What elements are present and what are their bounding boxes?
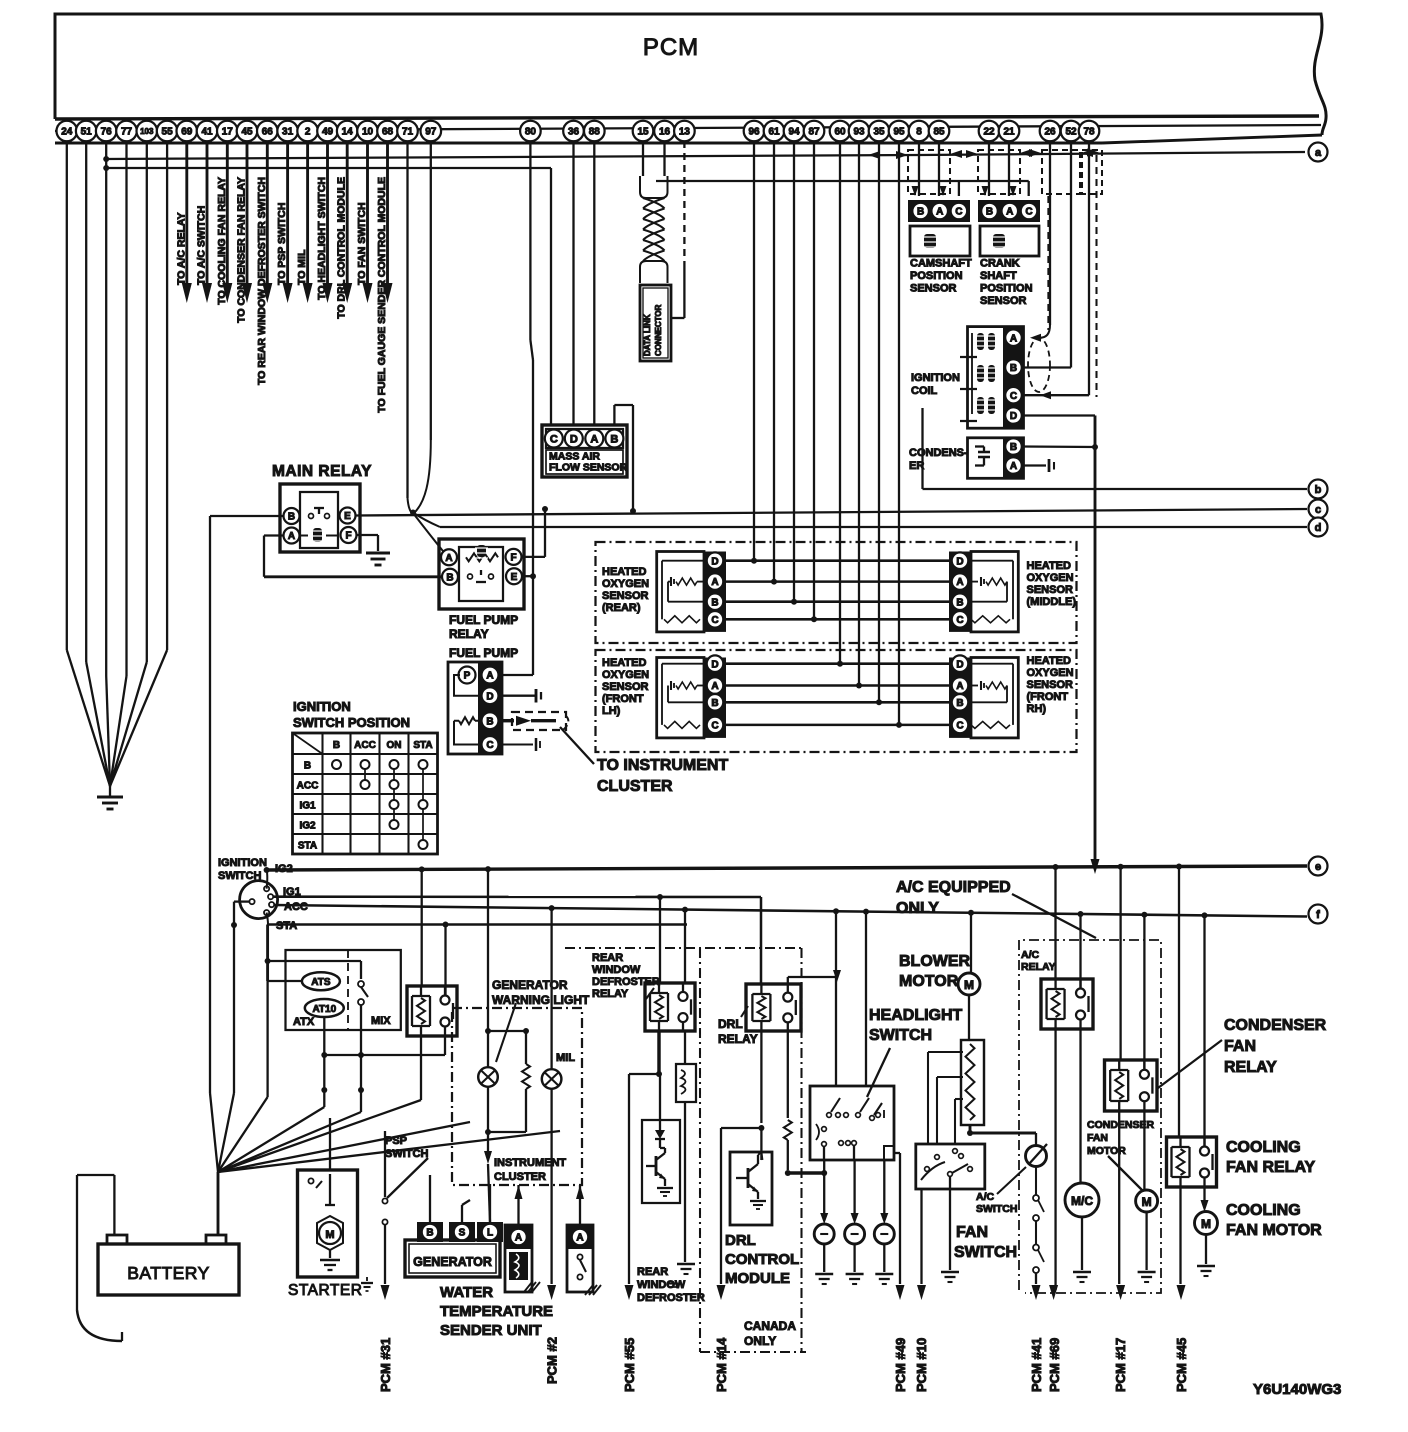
svg-text:PCM #55: PCM #55 — [622, 1338, 637, 1392]
svg-text:A/C: A/C — [1021, 949, 1040, 961]
svg-text:SHAFT: SHAFT — [980, 270, 1017, 282]
svg-text:RELAY: RELAY — [592, 988, 629, 1000]
svg-text:IG1: IG1 — [299, 801, 316, 812]
svg-text:41: 41 — [201, 127, 213, 138]
svg-text:TO A/C RELAY: TO A/C RELAY — [175, 212, 187, 285]
svg-text:WARNING LIGHT: WARNING LIGHT — [492, 993, 590, 1007]
svg-text:TO CONDENSER FAN RELAY: TO CONDENSER FAN RELAY — [236, 177, 248, 323]
svg-text:FUEL PUMP: FUEL PUMP — [449, 646, 518, 660]
svg-text:SWITCH: SWITCH — [869, 1027, 932, 1044]
svg-text:E: E — [511, 572, 518, 583]
svg-text:DRL: DRL — [718, 1017, 743, 1031]
svg-text:2: 2 — [305, 127, 311, 138]
svg-text:A: A — [590, 433, 598, 445]
svg-text:RELAY: RELAY — [449, 627, 489, 641]
svg-text:TO REAR WINDOW DEFROSTER SWITC: TO REAR WINDOW DEFROSTER SWITCH — [256, 177, 268, 385]
svg-text:A: A — [576, 1233, 583, 1244]
svg-text:A: A — [956, 577, 963, 588]
svg-text:d: d — [1315, 522, 1322, 534]
svg-text:52: 52 — [1065, 127, 1077, 138]
svg-text:IGNITION: IGNITION — [218, 857, 267, 869]
svg-text:OXYGEN: OXYGEN — [1027, 572, 1074, 584]
svg-text:TEMPERATURE: TEMPERATURE — [440, 1303, 553, 1320]
svg-text:(FRONT: (FRONT — [602, 693, 644, 705]
svg-text:a: a — [1315, 147, 1322, 159]
svg-text:MAIN RELAY: MAIN RELAY — [272, 463, 372, 480]
svg-text:D: D — [711, 659, 718, 670]
svg-text:C: C — [711, 615, 718, 626]
svg-text:ACC: ACC — [297, 781, 319, 792]
svg-text:WINDOW: WINDOW — [637, 1279, 686, 1291]
svg-text:HEATED: HEATED — [602, 657, 646, 669]
svg-text:26: 26 — [1044, 127, 1056, 138]
svg-text:A: A — [1010, 461, 1017, 472]
svg-text:PSP: PSP — [385, 1135, 407, 1147]
svg-text:OXYGEN: OXYGEN — [1027, 667, 1074, 679]
svg-text:B: B — [610, 433, 618, 445]
svg-text:C: C — [711, 721, 718, 732]
svg-text:97: 97 — [425, 127, 437, 138]
svg-text:MIX: MIX — [371, 1015, 391, 1027]
svg-text:88: 88 — [589, 127, 601, 138]
svg-text:SWITCH: SWITCH — [976, 1203, 1017, 1215]
svg-text:D: D — [956, 556, 963, 567]
svg-text:REAR: REAR — [637, 1266, 668, 1278]
svg-text:PCM #2: PCM #2 — [545, 1337, 560, 1384]
svg-text:FAN MOTOR: FAN MOTOR — [1226, 1222, 1322, 1239]
svg-text:C: C — [956, 721, 963, 732]
svg-text:69: 69 — [181, 127, 193, 138]
svg-text:76: 76 — [101, 127, 113, 138]
svg-text:POSITION: POSITION — [980, 283, 1033, 295]
svg-text:LH): LH) — [602, 705, 621, 717]
svg-text:93: 93 — [853, 127, 865, 138]
svg-text:OXYGEN: OXYGEN — [602, 669, 649, 681]
svg-text:B: B — [917, 207, 924, 218]
svg-text:TO DRL CONTROL MODULE: TO DRL CONTROL MODULE — [336, 177, 348, 319]
svg-text:A: A — [711, 577, 718, 588]
svg-text:D: D — [956, 659, 963, 670]
svg-text:15: 15 — [637, 127, 649, 138]
svg-text:36: 36 — [568, 127, 580, 138]
svg-text:21: 21 — [1003, 127, 1015, 138]
svg-text:Y6U140WG3: Y6U140WG3 — [1253, 1381, 1341, 1398]
svg-text:PCM #14: PCM #14 — [714, 1337, 729, 1392]
svg-text:PCM #45: PCM #45 — [1174, 1338, 1189, 1392]
svg-text:C: C — [1025, 207, 1032, 218]
svg-text:45: 45 — [241, 127, 253, 138]
svg-text:DEFROSTER: DEFROSTER — [637, 1292, 705, 1304]
svg-text:87: 87 — [808, 127, 820, 138]
svg-text:HEATED: HEATED — [602, 566, 646, 578]
svg-text:TO A/C SWITCH: TO A/C SWITCH — [196, 206, 208, 285]
svg-text:10: 10 — [362, 127, 374, 138]
svg-text:WINDOW: WINDOW — [592, 964, 641, 976]
svg-text:POSITION: POSITION — [910, 270, 963, 282]
svg-text:PCM #17: PCM #17 — [1113, 1338, 1128, 1392]
svg-text:CONDENSER: CONDENSER — [1087, 1119, 1155, 1131]
svg-text:P: P — [464, 671, 471, 682]
svg-text:TO MIL: TO MIL — [296, 249, 308, 285]
svg-text:96: 96 — [748, 127, 760, 138]
svg-text:FUEL PUMP: FUEL PUMP — [449, 613, 518, 627]
svg-text:CONNECTOR: CONNECTOR — [654, 304, 663, 356]
svg-text:35: 35 — [873, 127, 885, 138]
svg-text:MOTOR: MOTOR — [1087, 1145, 1126, 1157]
svg-text:PCM #41: PCM #41 — [1029, 1338, 1044, 1392]
svg-text:C: C — [955, 207, 962, 218]
svg-text:BATTERY: BATTERY — [127, 1263, 210, 1283]
svg-text:MODULE: MODULE — [725, 1270, 790, 1287]
svg-text:c: c — [1315, 504, 1321, 516]
svg-text:IGNITION: IGNITION — [911, 372, 960, 384]
svg-text:95: 95 — [893, 127, 905, 138]
svg-text:B: B — [288, 512, 295, 523]
svg-text:24: 24 — [61, 127, 73, 138]
svg-text:HEATED: HEATED — [1027, 655, 1071, 667]
svg-text:RELAY: RELAY — [1224, 1059, 1277, 1076]
svg-text:DRL: DRL — [725, 1232, 756, 1249]
svg-text:B: B — [304, 761, 311, 772]
svg-text:B: B — [711, 698, 718, 709]
svg-text:COIL: COIL — [911, 385, 938, 397]
svg-text:77: 77 — [121, 127, 133, 138]
svg-text:B: B — [486, 716, 493, 727]
svg-text:F: F — [345, 531, 351, 542]
svg-text:D: D — [1010, 411, 1017, 422]
svg-text:ACC: ACC — [284, 901, 308, 913]
svg-text:f: f — [1316, 909, 1320, 921]
svg-text:B: B — [986, 207, 993, 218]
svg-text:SENSOR: SENSOR — [980, 295, 1027, 307]
svg-text:GENERATOR: GENERATOR — [492, 978, 568, 992]
svg-text:B: B — [956, 698, 963, 709]
svg-text:A: A — [711, 681, 718, 692]
svg-text:TO HEADLIGHT SWITCH: TO HEADLIGHT SWITCH — [316, 177, 328, 300]
svg-text:60: 60 — [834, 127, 846, 138]
svg-text:CONDENS-: CONDENS- — [909, 447, 968, 459]
svg-text:e: e — [1315, 861, 1321, 873]
svg-text:A: A — [486, 671, 493, 682]
svg-text:A: A — [936, 207, 943, 218]
svg-text:ON: ON — [387, 740, 402, 751]
svg-text:22: 22 — [983, 127, 995, 138]
svg-text:CONTROL: CONTROL — [725, 1251, 799, 1268]
svg-text:ATX: ATX — [293, 1016, 315, 1028]
svg-text:C: C — [1010, 391, 1017, 402]
svg-text:D: D — [486, 691, 493, 702]
svg-text:B: B — [1010, 442, 1017, 453]
svg-text:CLUSTER: CLUSTER — [494, 1171, 546, 1183]
svg-text:CLUSTER: CLUSTER — [597, 778, 673, 795]
svg-text:WATER: WATER — [440, 1284, 493, 1301]
svg-text:TO COOLING FAN RELAY: TO COOLING FAN RELAY — [216, 177, 228, 305]
svg-text:8: 8 — [916, 127, 922, 138]
svg-text:E: E — [344, 511, 351, 522]
svg-text:B: B — [426, 1228, 433, 1239]
svg-text:PCM #31: PCM #31 — [378, 1338, 393, 1392]
svg-text:PCM #10: PCM #10 — [914, 1338, 929, 1392]
svg-text:ATS: ATS — [311, 977, 331, 988]
svg-text:SENSOR: SENSOR — [1027, 584, 1074, 596]
svg-text:CAMSHAFT: CAMSHAFT — [910, 258, 972, 270]
svg-text:HEATED: HEATED — [1027, 560, 1071, 572]
svg-text:M: M — [964, 978, 974, 992]
svg-text:ONLY: ONLY — [744, 1334, 776, 1348]
svg-text:L: L — [487, 1228, 493, 1239]
svg-text:66: 66 — [262, 127, 274, 138]
svg-text:61: 61 — [768, 127, 780, 138]
svg-text:INSTRUMENT: INSTRUMENT — [494, 1157, 566, 1169]
svg-text:A/C: A/C — [976, 1191, 995, 1203]
svg-text:A: A — [956, 681, 963, 692]
svg-text:A: A — [1006, 207, 1013, 218]
svg-text:OXYGEN: OXYGEN — [602, 578, 649, 590]
svg-text:S: S — [459, 1228, 466, 1239]
svg-text:FAN: FAN — [1087, 1132, 1108, 1144]
svg-text:55: 55 — [162, 127, 174, 138]
svg-text:C: C — [956, 615, 963, 626]
svg-text:PCM #49: PCM #49 — [893, 1338, 908, 1392]
svg-text:SENDER UNIT: SENDER UNIT — [440, 1322, 542, 1339]
svg-text:BLOWER: BLOWER — [899, 953, 971, 970]
svg-text:(MIDDLE): (MIDDLE) — [1027, 596, 1077, 608]
svg-text:13: 13 — [679, 127, 691, 138]
svg-text:B: B — [333, 740, 340, 751]
svg-text:B: B — [1010, 363, 1017, 374]
svg-text:IGNITION: IGNITION — [293, 699, 351, 714]
svg-text:SENSOR: SENSOR — [910, 283, 957, 295]
svg-text:FAN RELAY: FAN RELAY — [1226, 1159, 1316, 1176]
svg-text:SENSOR: SENSOR — [1027, 679, 1074, 691]
svg-text:C: C — [550, 433, 558, 445]
svg-text:REAR: REAR — [592, 952, 623, 964]
svg-text:C: C — [486, 740, 493, 751]
svg-text:b: b — [1315, 484, 1322, 496]
svg-text:PCM #69: PCM #69 — [1047, 1338, 1062, 1392]
svg-text:51: 51 — [81, 127, 93, 138]
svg-text:AT10: AT10 — [312, 1004, 336, 1015]
svg-text:MOTOR: MOTOR — [899, 973, 959, 990]
svg-text:17: 17 — [222, 127, 234, 138]
svg-text:FAN: FAN — [956, 1224, 988, 1241]
svg-text:80: 80 — [525, 127, 537, 138]
svg-text:CONDENSER: CONDENSER — [1224, 1017, 1327, 1034]
svg-text:A: A — [445, 553, 452, 564]
svg-text:TO PSP SWITCH: TO PSP SWITCH — [276, 203, 288, 285]
svg-text:31: 31 — [282, 127, 294, 138]
svg-text:D: D — [570, 433, 578, 445]
svg-text:FLOW SENSOR: FLOW SENSOR — [549, 462, 628, 474]
svg-text:COOLING: COOLING — [1226, 1139, 1301, 1156]
svg-text:SWITCH POSITION: SWITCH POSITION — [293, 715, 410, 730]
svg-text:78: 78 — [1083, 127, 1095, 138]
svg-text:A: A — [515, 1233, 522, 1244]
svg-text:MIL: MIL — [556, 1052, 575, 1064]
svg-text:49: 49 — [322, 127, 334, 138]
svg-text:ER: ER — [909, 460, 924, 472]
svg-text:CANADA: CANADA — [744, 1319, 796, 1333]
svg-text:SENSOR: SENSOR — [602, 681, 649, 693]
svg-text:STARTER: STARTER — [288, 1282, 362, 1299]
svg-text:COOLING: COOLING — [1226, 1202, 1301, 1219]
svg-text:F: F — [510, 553, 516, 564]
svg-text:68: 68 — [382, 127, 394, 138]
svg-text:85: 85 — [933, 127, 945, 138]
svg-text:D: D — [711, 556, 718, 567]
svg-text:M: M — [1142, 1195, 1152, 1209]
svg-text:94: 94 — [788, 127, 800, 138]
svg-text:RELAY: RELAY — [718, 1032, 758, 1046]
svg-text:STA: STA — [413, 740, 432, 751]
svg-text:FAN: FAN — [1224, 1038, 1256, 1055]
svg-text:(REAR): (REAR) — [602, 602, 641, 614]
svg-text:B: B — [956, 597, 963, 608]
svg-text:HEADLIGHT: HEADLIGHT — [869, 1007, 963, 1024]
svg-text:GENERATOR: GENERATOR — [413, 1255, 492, 1269]
svg-text:DATA LINK: DATA LINK — [643, 314, 652, 356]
svg-text:CRANK: CRANK — [980, 258, 1020, 270]
svg-text:RELAY: RELAY — [1021, 961, 1056, 973]
svg-text:B: B — [446, 572, 453, 583]
svg-text:TO FUEL GAUGE SENDER CONTROL M: TO FUEL GAUGE SENDER CONTROL MODULE — [376, 177, 388, 413]
svg-text:PCM: PCM — [643, 34, 699, 61]
svg-text:ACC: ACC — [354, 740, 376, 751]
svg-text:A/C EQUIPPED: A/C EQUIPPED — [896, 879, 1011, 896]
svg-text:103: 103 — [140, 127, 154, 136]
svg-text:IG2: IG2 — [299, 821, 316, 832]
svg-text:SWITCH: SWITCH — [954, 1244, 1017, 1261]
svg-text:TO FAN SWITCH: TO FAN SWITCH — [356, 202, 368, 285]
svg-text:M: M — [1201, 1217, 1211, 1231]
svg-text:TO INSTRUMENT: TO INSTRUMENT — [597, 757, 728, 774]
svg-text:SWITCH: SWITCH — [385, 1148, 428, 1160]
svg-text:A: A — [1010, 333, 1017, 344]
svg-text:(FRONT: (FRONT — [1027, 691, 1069, 703]
svg-text:STA: STA — [298, 841, 317, 852]
svg-text:M: M — [325, 1229, 334, 1241]
svg-text:M/C: M/C — [1071, 1194, 1093, 1208]
svg-text:ONLY: ONLY — [896, 900, 939, 917]
svg-text:16: 16 — [659, 127, 671, 138]
svg-text:B: B — [711, 597, 718, 608]
svg-text:71: 71 — [402, 127, 414, 138]
svg-text:SENSOR: SENSOR — [602, 590, 649, 602]
svg-text:RH): RH) — [1027, 703, 1047, 715]
svg-text:14: 14 — [342, 127, 354, 138]
svg-text:STA: STA — [276, 920, 297, 932]
svg-text:A: A — [288, 531, 295, 542]
